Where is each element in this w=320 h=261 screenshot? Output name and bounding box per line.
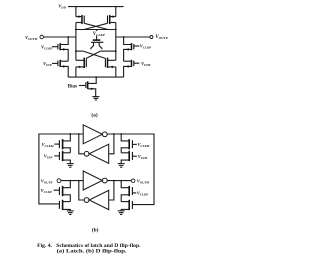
svg-text:VINM: VINM [138, 154, 148, 160]
svg-text:VCLKP: VCLKP [93, 32, 106, 37]
svg-text:VOUTP: VOUTP [41, 179, 53, 185]
svg-text:VINM: VINM [141, 61, 151, 67]
svg-text:(a): (a) [91, 111, 97, 118]
svg-text:VOUTP: VOUTP [155, 35, 168, 40]
svg-text:VCLKP: VCLKP [137, 191, 148, 197]
svg-text:VINP: VINP [44, 154, 53, 160]
svg-text:VCLKM: VCLKM [137, 142, 149, 148]
svg-text:VCLKM: VCLKM [42, 142, 54, 148]
svg-text:VOUTM: VOUTM [137, 179, 150, 185]
svg-text:VCLKP: VCLKP [140, 44, 151, 50]
svg-text:(a) Latch. (b) D flip-flop.: (a) Latch. (b) D flip-flop. [57, 248, 128, 255]
svg-text:VINP: VINP [43, 61, 52, 67]
svg-text:VDD: VDD [58, 3, 66, 9]
svg-text:VCLKP: VCLKP [41, 44, 52, 50]
svg-text:VOUTM: VOUTM [25, 35, 38, 41]
svg-text:Bias: Bias [68, 85, 77, 90]
svg-text:(b): (b) [92, 227, 99, 234]
svg-text:VCLKP: VCLKP [41, 188, 52, 194]
